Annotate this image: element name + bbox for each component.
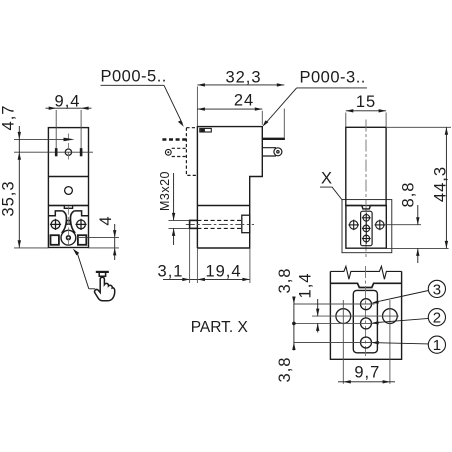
front view crossing line lower (35,3 extension through hole): [14, 151, 93, 153]
base left screw: [50, 219, 61, 230]
balloon 2: [428, 309, 445, 326]
bottom dim line: [163, 278, 250, 280]
svg-text:35,3: 35,3: [0, 180, 18, 216]
svg-text:P000-5..: P000-5..: [101, 68, 167, 86]
break line top with zigzags: [330, 266, 401, 279]
svg-text:1: 1: [433, 337, 441, 354]
detail side hole verticals: [343, 300, 390, 384]
svg-text:24: 24: [234, 92, 254, 110]
hand symbol: [94, 277, 114, 301]
screw centerline: [186, 224, 254, 226]
flow arrow on upper line: [64, 138, 75, 142]
dim 9,4 extension lines: [56, 110, 81, 149]
left slot tick: [55, 148, 58, 156]
dim 44,3 top extension: [387, 126, 451, 128]
hand push button: [96, 271, 109, 273]
base right screw: [75, 219, 86, 230]
detail X thin box: [342, 200, 392, 253]
svg-text:3,8: 3,8: [276, 268, 294, 294]
front view top hole centerline vertical: [67, 134, 69, 162]
base bottom port circle: [61, 230, 76, 245]
dim 9,7 line: [338, 381, 395, 383]
rear view body: [346, 127, 386, 205]
base yoke left arc: [62, 211, 67, 233]
detail horizontal centerlines: [294, 304, 399, 343]
dim 4 vertical line: [114, 224, 116, 260]
base top notch: [48, 206, 88, 209]
detail outline with break top: [330, 271, 401, 359]
svg-text:X: X: [321, 170, 332, 188]
rear side screw holes: [348, 220, 385, 231]
dim M3x20 arrows: [173, 173, 175, 220]
base yoke center square: [67, 221, 71, 225]
base centerline vertical: [67, 207, 69, 248]
svg-text:3,1: 3,1: [158, 262, 184, 280]
detail port 1 circle: [361, 337, 372, 348]
base yoke left step: [48, 211, 62, 216]
detail rounded rect: [353, 290, 377, 352]
connector flange (thick): [262, 138, 285, 140]
connector pin: [262, 148, 282, 156]
side view base joint line: [197, 205, 249, 207]
balloon 1: [428, 336, 445, 353]
protruding screw end: [190, 220, 198, 230]
dim 32,3 line: [197, 84, 284, 86]
dim 4 extension lines: [77, 238, 119, 248]
svg-text:3,8: 3,8: [276, 357, 294, 383]
base corner rect left: [51, 235, 59, 245]
dim 15 extension lines: [346, 113, 386, 127]
rear view centerline: [365, 120, 367, 259]
hand leader arrow: [73, 249, 79, 256]
dashed flange (thick): [162, 138, 186, 140]
dim 8,8 extension lines: [385, 225, 449, 249]
base corner rect right: [78, 235, 86, 245]
svg-text:32,3: 32,3: [225, 68, 261, 86]
front view body outline: [48, 128, 88, 248]
arrow down to 139.4: [18, 132, 21, 140]
svg-text:15: 15: [356, 93, 376, 111]
detail port 3 circle: [361, 299, 372, 310]
dim 4 arrows: [113, 230, 116, 238]
rear base outline with notch: [346, 206, 386, 249]
svg-text:8,8: 8,8: [400, 182, 418, 208]
base yoke right arc: [70, 211, 75, 233]
detail vertical centerline: [365, 266, 367, 356]
dim 8,8 arrows: [417, 205, 419, 225]
svg-text:PART. X: PART. X: [191, 319, 249, 336]
side view body outline: [197, 127, 262, 248]
detail port 2 circle: [361, 318, 372, 329]
rear port circles: [362, 213, 371, 244]
svg-text:4,7: 4,7: [0, 105, 18, 131]
rear connector rounded rect: [361, 211, 373, 246]
dashed alternate connector (P000-5 option): [172, 128, 198, 176]
connector right edge: [283, 109, 285, 138]
dashed pin end circle: [165, 149, 171, 155]
svg-text:9,7: 9,7: [354, 364, 380, 382]
dim 24 line: [197, 108, 262, 110]
svg-text:M3x20: M3x20: [158, 171, 172, 211]
detail side hole right: [383, 309, 398, 324]
svg-text:19,4: 19,4: [205, 262, 241, 280]
svg-text:P000-3..: P000-3..: [300, 69, 366, 87]
arrow up to 152.2: [18, 152, 21, 160]
svg-text:9,4: 9,4: [55, 92, 81, 110]
svg-text:1,4: 1,4: [297, 273, 315, 299]
dim 35,3 bottom extension line: [14, 247, 48, 249]
dim 4,7 / 35,3 vertical line: [18, 126, 20, 248]
detail base edge with notch: [330, 283, 401, 287]
svg-text:3: 3: [433, 281, 441, 298]
screw end extension lines: [169, 220, 190, 228]
vent slot top-left: [200, 128, 212, 132]
bottom dim extension lines: [190, 229, 250, 283]
dim 44,3 line: [445, 127, 447, 248]
dim 9,4 line and arrows: [46, 107, 92, 109]
front view crossing line upper (4,7 extension): [14, 138, 66, 140]
svg-text:2: 2: [433, 310, 441, 327]
dim 32,3 left extension: [196, 87, 198, 127]
dim 3,8/3,8 vertical line: [293, 297, 295, 351]
front view top hole circle: [65, 149, 71, 155]
detail side hole left: [336, 309, 351, 324]
dim 1,4 arrows: [317, 299, 319, 316]
hidden screw shaft dashed: [197, 220, 241, 228]
mounting screw boss on right edge: [242, 215, 250, 233]
front view middle circle: [65, 187, 73, 195]
right slot tick: [80, 148, 83, 156]
balloon 3: [428, 280, 445, 297]
base yoke right step: [74, 211, 88, 216]
svg-text:4: 4: [97, 215, 115, 225]
dim 15 line: [346, 110, 386, 112]
arrow down to 247.7: [18, 240, 21, 248]
